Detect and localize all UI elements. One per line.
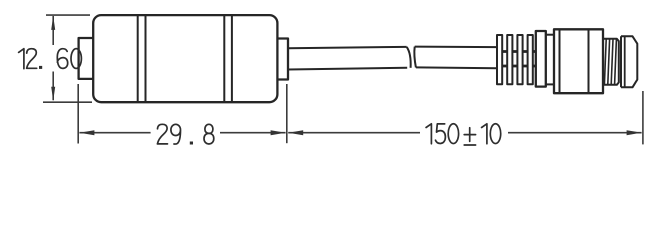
- thread line 4: [615, 39, 617, 84]
- arrow 29.8 right: [271, 130, 286, 135]
- dim 12.60 top extension line: [46, 14, 90, 16]
- arrow 12.60 up: [51, 16, 55, 30]
- dim 12.60 vertical dimension line: [52, 16, 54, 100]
- dim 29.8 left extension line: [77, 84, 79, 144]
- arrow 150 left: [288, 130, 303, 135]
- boot core top silhouette: [502, 50, 536, 53]
- cable segment 2 bottom: [416, 66, 497, 69]
- cable segment 1 top: [288, 47, 407, 48]
- text 150 plus-minus 10: [426, 124, 501, 145]
- dim 29.8 / 150 shared extension line: [286, 84, 288, 143]
- neck bottom line: [546, 83, 554, 85]
- end cap outline: [621, 36, 637, 87]
- dim 150 dimension line: [288, 132, 641, 134]
- left nose tab: [79, 38, 94, 79]
- boot core bottom silhouette: [502, 65, 536, 68]
- neck top line: [546, 34, 554, 36]
- boot fin 1: [497, 35, 502, 84]
- dim 12.60 bottom extension line: [43, 101, 92, 103]
- arrow 12.60 down: [51, 87, 55, 101]
- text 29.8: [157, 124, 213, 144]
- cable break right edge: [414, 47, 416, 68]
- connector body inner line right: [588, 29, 590, 93]
- cable segment 2 top: [415, 46, 497, 49]
- end cap inner line: [624, 36, 626, 87]
- thread section outline: [603, 39, 619, 85]
- connector body inner line left: [559, 29, 561, 93]
- text 12.60: [19, 49, 82, 69]
- dim 29.8 dimension line: [79, 132, 285, 134]
- thread line 2: [608, 39, 610, 84]
- boot fin 3: [517, 35, 522, 84]
- cable segment 1 bottom: [288, 68, 407, 70]
- boot fin 4: [528, 35, 533, 84]
- right strain tab: [277, 39, 288, 80]
- thread line 1: [604, 39, 606, 84]
- boot end ring: [536, 31, 546, 87]
- connector body: [554, 29, 603, 93]
- cable break left edge: [407, 47, 411, 68]
- overmold body outline: [93, 15, 277, 102]
- body parting line pair B: [224, 15, 232, 102]
- thread line 3: [611, 39, 613, 84]
- boot fin 2: [507, 35, 512, 84]
- dim 150 right extension line: [642, 91, 644, 144]
- body parting line pair A: [138, 15, 146, 102]
- arrow 150 right: [627, 130, 642, 135]
- arrow 29.8 left: [79, 130, 94, 135]
